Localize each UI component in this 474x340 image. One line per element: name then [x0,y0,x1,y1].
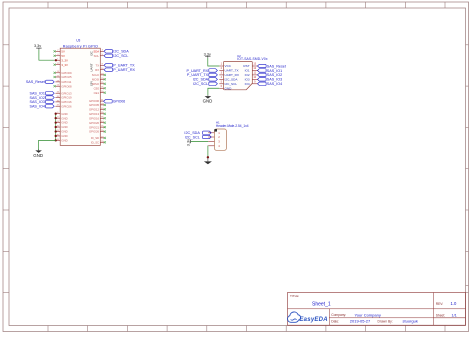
title block labels [290,294,445,323]
svg-text:P_UART_RX: P_UART_RX [113,68,135,72]
wire U3 GND to ground [39,140,56,150]
svg-text:GPIO26: GPIO26 [61,104,72,108]
svg-text:GND: GND [61,130,67,134]
svg-text:GPIO25: GPIO25 [61,75,72,79]
svg-text:I2C_SDA: I2C_SDA [193,78,209,82]
svg-text:RST: RST [243,64,249,68]
svg-text:1.0: 1.0 [451,301,457,306]
wire 3.3V to U2 VCC [208,58,220,66]
svg-text:3_3V: 3_3V [61,58,68,62]
svg-text:3.3v: 3.3v [186,139,190,146]
svg-text:CE0: CE0 [94,86,100,90]
title block [288,293,466,326]
net label I2C_SDA (U2) [193,78,218,82]
net label P_UART_TX (U2) [187,73,218,77]
power flag 3.3V (U3) [34,44,42,50]
svg-text:GPIO06: GPIO06 [113,100,125,104]
net label SAS_IO3 (U3) [30,100,55,104]
junction at U3 3_3V pin [55,59,57,61]
net label SAS_IO2 (U3) [30,96,55,100]
svg-text:CE1: CE1 [94,91,100,95]
net label I2C_SCL (U2) [193,82,217,86]
svg-text:GND: GND [61,134,67,138]
svg-text:Drawn By:: Drawn By: [378,319,393,323]
svg-text:TITLE:: TITLE: [290,294,299,298]
wire GND bus on U3 pins [55,114,57,141]
svg-text:SCL: SCL [94,54,100,58]
svg-text:GPIO20: GPIO20 [89,121,100,125]
svg-text:I2C_SDA: I2C_SDA [113,50,129,54]
svg-text:IO3: IO3 [245,77,250,81]
svg-text:Your Company: Your Company [355,312,381,317]
net label SAS_IO4 (U3) [30,105,55,109]
svg-text:I2C_SCL: I2C_SCL [193,82,208,86]
net label I2C_SDA (U3) [104,50,129,54]
svg-text:GND: GND [61,116,67,120]
svg-text:GPIO05: GPIO05 [89,103,100,107]
svg-text:EasyEDA: EasyEDA [299,317,327,323]
net label SAS_IO1 (U3) [30,92,55,96]
svg-text:MOSI: MOSI [92,77,99,81]
svg-text:I2C: I2C [89,50,93,56]
IC U3 Raspberry Pi GPIO [54,39,106,146]
svg-text:UART: UART [89,63,93,71]
svg-text:5V: 5V [61,49,65,53]
svg-text:SAS_IO3: SAS_IO3 [267,78,282,82]
svg-text:3.3v: 3.3v [204,52,211,56]
svg-text:GND: GND [61,121,67,125]
svg-text:3.3v: 3.3v [34,44,41,48]
svg-text:SDA: SDA [93,49,99,53]
net label SAS_IO1 (U2) [258,69,283,73]
svg-text:Sheet_1: Sheet_1 [312,301,331,307]
svg-text:Sheet:: Sheet: [436,314,446,318]
svg-text:I2C_SCL: I2C_SCL [185,135,200,139]
net label GPIO06 [104,100,126,104]
svg-text:U3: U3 [76,39,80,43]
svg-text:VCC: VCC [225,64,232,68]
svg-text:RX: RX [95,68,99,72]
net label I2C_SDA (H1 pin1) [184,131,211,135]
svg-text:ID_SC: ID_SC [91,140,99,144]
svg-text:Raspberry Pi GPIO: Raspberry Pi GPIO [63,44,98,48]
EasyEDA logo [288,312,328,323]
U3 pin group labels I2C / UART / SPI [89,50,93,86]
svg-text:IO4: IO4 [245,82,250,86]
svg-text:SAS_IO2: SAS_IO2 [30,96,45,100]
svg-text:GPIO16: GPIO16 [89,116,100,120]
net label I2C_SCL (H1 pin2) [185,135,211,139]
net label I2C_SCL (U3) [104,54,128,58]
title block values [312,301,457,323]
junction at H1 ground [207,156,209,158]
connector H1 Header-Male-2.54_1x4 [208,121,249,151]
net label P_UART_RX [104,68,135,72]
net label SAS_IO3 (U2) [258,78,283,82]
net label SAS_Reset (U2) [258,64,286,68]
svg-text:ID_SD: ID_SD [91,136,99,140]
svg-text:UART_RX: UART_RX [225,73,239,77]
wire H1 pin4 to ground [207,146,209,158]
svg-text:P_UART_RX: P_UART_RX [186,69,208,73]
svg-text:GND: GND [61,139,67,143]
svg-text:stuorguk: stuorguk [403,319,418,324]
svg-text:I2C_SDA: I2C_SDA [225,77,239,81]
svg-text:GND: GND [203,99,213,104]
svg-text:SAS_IO4: SAS_IO4 [30,105,45,109]
ground (U2) [203,95,213,103]
svg-text:Company:: Company: [331,313,346,317]
power flag 3.3V (H1 pin3, rotated) [186,139,190,146]
net label SAS_IO2 (U2) [258,73,283,77]
svg-text:GPIO12: GPIO12 [89,107,100,111]
svg-text:SAS_Reset: SAS_Reset [267,64,286,68]
svg-text:SAS_IO2: SAS_IO2 [267,73,282,77]
svg-text:SCLK: SCLK [92,73,99,77]
ground (H1, unlabeled) [204,158,212,164]
junctions on U3 GND pins [55,113,57,142]
svg-text:SAS_IO4: SAS_IO4 [267,82,282,86]
svg-text:SPI: SPI [89,81,93,86]
svg-text:Date:: Date: [331,319,339,323]
wire U2 GND to ground [208,88,219,95]
power flag 3.3V (U2) [204,52,211,58]
svg-text:1/1: 1/1 [452,314,457,318]
svg-text:GPIO21: GPIO21 [89,125,100,129]
svg-text:REV:: REV: [436,302,444,306]
svg-text:I2C_SCL: I2C_SCL [113,54,128,58]
ground (U3) [33,150,43,158]
net label P_UART_RX (U2) [186,69,217,73]
svg-text:5V: 5V [61,54,65,58]
wire 3.3V to H1 pin3 [191,140,209,142]
svg-text:P_UART_TX: P_UART_TX [187,73,209,77]
wire 3.3V to U3 [39,50,56,60]
IC U2 IOT-SAS-SMD-V0x [219,54,268,90]
net label P_UART_TX [104,64,135,68]
svg-text:GPIO13: GPIO13 [89,112,100,116]
svg-text:UART_TX: UART_TX [225,69,239,73]
svg-text:3_3V: 3_3V [61,63,68,67]
svg-text:TX: TX [96,63,100,67]
svg-text:IO1: IO1 [245,69,250,73]
svg-text:GND: GND [225,86,233,90]
svg-text:P_UART_TX: P_UART_TX [113,64,135,68]
svg-text:I2C_SCL: I2C_SCL [225,82,238,86]
svg-text:GPIO19: GPIO19 [61,96,72,100]
net label SAS_IO4 (U2) [258,82,283,86]
svg-text:IO2: IO2 [245,73,250,77]
svg-text:GPIO26: GPIO26 [89,130,100,134]
svg-text:2019-05-27: 2019-05-27 [350,319,371,324]
net label SAS_Reset (U3) [26,80,54,84]
svg-text:GND: GND [61,125,67,129]
svg-text:Header-Male-2.54_1x4: Header-Male-2.54_1x4 [216,124,249,128]
svg-text:GPIO08: GPIO08 [61,84,72,88]
svg-text:SAS_IO1: SAS_IO1 [267,69,282,73]
svg-text:IOT-SAS-SMD-V0x: IOT-SAS-SMD-V0x [237,57,268,61]
svg-text:GND: GND [33,153,43,158]
svg-text:GND: GND [61,112,67,116]
svg-text:SAS_Reset: SAS_Reset [26,80,45,84]
